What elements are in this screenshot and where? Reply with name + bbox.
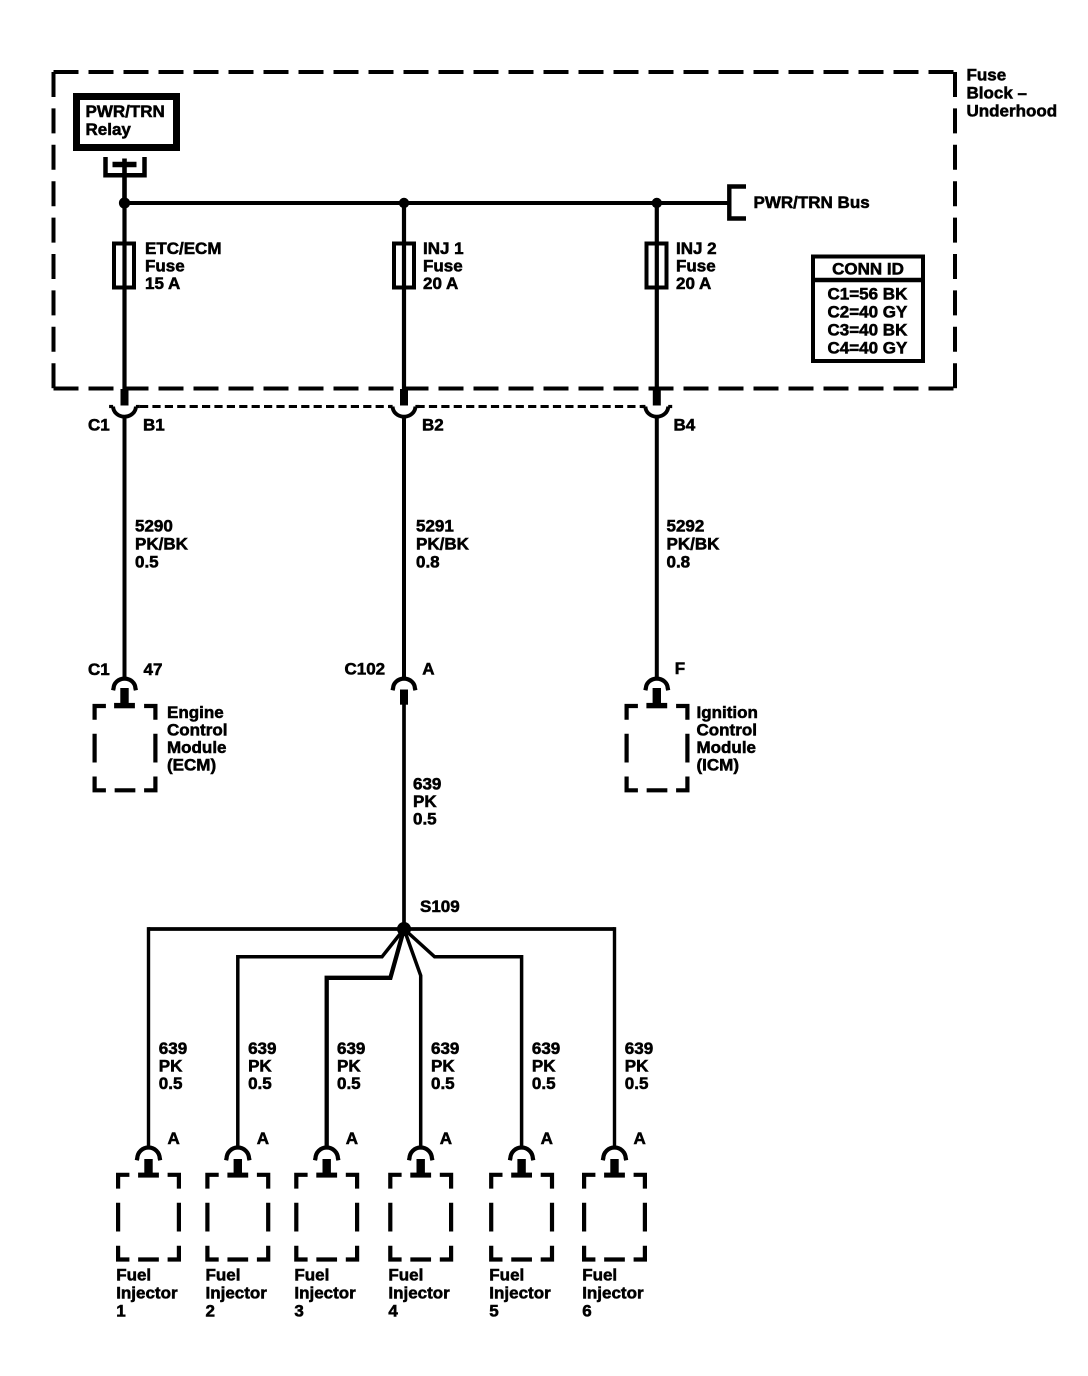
- connector C1 pin 47 at ECM: [88, 660, 162, 708]
- svg-text:639: 639: [413, 774, 441, 793]
- fuel injector 5: [489, 1175, 552, 1321]
- svg-text:Fuse: Fuse: [423, 257, 463, 276]
- svg-text:A: A: [440, 1129, 452, 1148]
- fuse INJ 2 20 A: [647, 239, 717, 293]
- svg-text:Injector: Injector: [116, 1284, 178, 1303]
- svg-text:Fuse: Fuse: [676, 257, 716, 276]
- svg-text:Fuel: Fuel: [582, 1266, 617, 1285]
- svg-text:5291: 5291: [416, 517, 454, 536]
- svg-text:639: 639: [532, 1039, 560, 1058]
- svg-text:PWR/TRN: PWR/TRN: [86, 102, 165, 121]
- svg-text:0.5: 0.5: [135, 552, 159, 571]
- svg-text:0.8: 0.8: [667, 552, 691, 571]
- fuse block label Fuse Block - Underhood: [967, 66, 1058, 121]
- svg-text:0.5: 0.5: [337, 1074, 361, 1093]
- fuel injector 2: [206, 1175, 269, 1321]
- in-line connector dashed tie line: [140, 405, 644, 408]
- svg-text:Injector: Injector: [582, 1284, 644, 1303]
- connector pin A fuel injector 4: [409, 1129, 452, 1178]
- svg-text:Relay: Relay: [86, 120, 132, 139]
- wire 5292 PK/BK 0.8: [657, 417, 720, 679]
- svg-text:S109: S109: [420, 897, 460, 916]
- fuse INJ 1 20 A: [394, 239, 464, 293]
- svg-text:639: 639: [337, 1039, 365, 1058]
- connector B2: [389, 389, 444, 435]
- fuel injector 6: [582, 1175, 645, 1321]
- svg-text:Block –: Block –: [967, 84, 1027, 103]
- svg-text:A: A: [168, 1129, 180, 1148]
- svg-text:A: A: [541, 1129, 553, 1148]
- svg-text:0.5: 0.5: [159, 1074, 183, 1093]
- wire 639 PK 0.5 C102 to splice: [404, 704, 441, 929]
- wire splice main horizontal rail: [149, 927, 615, 931]
- svg-text:1: 1: [116, 1302, 125, 1321]
- svg-text:Injector: Injector: [206, 1284, 268, 1303]
- svg-text:47: 47: [144, 660, 163, 679]
- svg-text:Injector: Injector: [294, 1284, 356, 1303]
- connector C102 pin A: [345, 660, 435, 705]
- svg-text:0.5: 0.5: [431, 1074, 455, 1093]
- wire label 639 PK 0.5 injector 5: [532, 1039, 560, 1093]
- svg-text:(ICM): (ICM): [697, 756, 739, 775]
- svg-text:Injector: Injector: [489, 1284, 551, 1303]
- wire branch to fuel injector 2: [238, 929, 404, 1147]
- svg-text:20 A: 20 A: [676, 274, 711, 293]
- svg-text:3: 3: [294, 1302, 303, 1321]
- svg-text:PK: PK: [413, 792, 437, 811]
- svg-text:ETC/ECM: ETC/ECM: [145, 239, 222, 258]
- svg-text:Control: Control: [697, 721, 757, 740]
- relay PWR/TRN: [73, 93, 180, 151]
- svg-text:Fuel: Fuel: [206, 1266, 241, 1285]
- svg-text:639: 639: [248, 1039, 276, 1058]
- wire branch to fuel injector 3: [327, 929, 404, 1147]
- svg-text:0.5: 0.5: [625, 1074, 649, 1093]
- svg-text:C102: C102: [345, 660, 386, 679]
- svg-text:PK: PK: [159, 1057, 183, 1076]
- svg-text:0.5: 0.5: [248, 1074, 272, 1093]
- wire drop to fuel injector 1: [147, 927, 150, 1147]
- svg-text:Fuel: Fuel: [294, 1266, 329, 1285]
- junction node at INJ 2 fuse drop: [652, 198, 662, 208]
- Ignition Control Module (ICM): [627, 703, 758, 790]
- svg-text:PK: PK: [532, 1057, 556, 1076]
- svg-text:CONN ID: CONN ID: [832, 260, 904, 279]
- svg-text:C1: C1: [88, 660, 110, 679]
- svg-text:A: A: [346, 1129, 358, 1148]
- wire label 639 PK 0.5 injector 4: [431, 1039, 459, 1093]
- Engine Control Module (ECM): [95, 703, 228, 790]
- svg-text:Control: Control: [167, 721, 227, 740]
- svg-text:0.5: 0.5: [413, 809, 437, 828]
- junction node at INJ 1 fuse drop: [399, 198, 409, 208]
- wire 5291 PK/BK 0.8: [404, 417, 470, 679]
- svg-text:Injector: Injector: [388, 1284, 450, 1303]
- svg-text:639: 639: [625, 1039, 653, 1058]
- splice S109: [397, 897, 460, 936]
- svg-text:A: A: [257, 1129, 269, 1148]
- connector B1 (fuse block C1 cavity B1): [88, 389, 165, 435]
- svg-text:15 A: 15 A: [145, 274, 180, 293]
- svg-text:Module: Module: [167, 738, 227, 757]
- svg-text:0.5: 0.5: [532, 1074, 556, 1093]
- connector F at ICM: [645, 659, 685, 709]
- svg-text:5292: 5292: [667, 517, 705, 536]
- svg-text:A: A: [422, 660, 434, 679]
- svg-text:PK: PK: [431, 1057, 455, 1076]
- wire label 639 PK 0.5 injector 2: [248, 1039, 276, 1093]
- wire 5290 PK/BK 0.5: [125, 417, 189, 679]
- svg-text:PK: PK: [337, 1057, 361, 1076]
- svg-text:Engine: Engine: [167, 703, 224, 722]
- PWR/TRN Bus terminal bracket: [729, 187, 869, 219]
- junction node at relay drop: [119, 197, 130, 208]
- svg-text:5: 5: [489, 1302, 498, 1321]
- wire branch to fuel injector 5: [404, 929, 522, 1147]
- svg-text:PK/BK: PK/BK: [135, 535, 189, 554]
- svg-text:C2=40 GY: C2=40 GY: [828, 303, 909, 322]
- svg-text:Fuse: Fuse: [967, 66, 1007, 85]
- svg-text:Fuel: Fuel: [489, 1266, 524, 1285]
- svg-text:PK: PK: [248, 1057, 272, 1076]
- svg-text:Fuel: Fuel: [388, 1266, 423, 1285]
- svg-text:0.8: 0.8: [416, 552, 440, 571]
- svg-text:20 A: 20 A: [423, 274, 458, 293]
- svg-text:C4=40 GY: C4=40 GY: [828, 339, 909, 358]
- svg-text:Fuse: Fuse: [145, 257, 185, 276]
- svg-text:6: 6: [582, 1302, 591, 1321]
- svg-text:C3=40 BK: C3=40 BK: [828, 321, 909, 340]
- relay output pin symbol: [106, 157, 145, 175]
- connector pin A fuel injector 6: [603, 1129, 646, 1178]
- wire label 639 PK 0.5 injector 1: [159, 1039, 187, 1093]
- fuel injector 4: [388, 1175, 451, 1321]
- svg-text:Underhood: Underhood: [967, 102, 1058, 121]
- svg-text:C1=56 BK: C1=56 BK: [828, 285, 909, 304]
- svg-text:INJ 1: INJ 1: [423, 239, 464, 258]
- svg-text:Fuel: Fuel: [116, 1266, 151, 1285]
- svg-text:B1: B1: [143, 416, 165, 435]
- svg-text:Module: Module: [697, 738, 757, 757]
- fuse block dashed enclosure: [54, 72, 956, 389]
- svg-text:4: 4: [388, 1302, 398, 1321]
- connector pin A fuel injector 3: [315, 1129, 358, 1178]
- wire drop to fuel injector 6: [613, 927, 616, 1147]
- svg-text:Ignition: Ignition: [697, 703, 758, 722]
- wire label 639 PK 0.5 injector 3: [337, 1039, 365, 1093]
- wire bus to connector B4 through INJ 2 fuse: [655, 203, 659, 390]
- svg-text:B2: B2: [422, 416, 444, 435]
- connector pin A fuel injector 2: [226, 1129, 269, 1178]
- svg-text:B4: B4: [674, 416, 696, 435]
- fuse ETC/ECM 15 A: [114, 239, 222, 293]
- wire bus to connector B2 through INJ 1 fuse: [402, 203, 406, 390]
- svg-text:C1: C1: [88, 416, 110, 435]
- wire PWR/TRN bus horizontal: [125, 201, 729, 205]
- svg-text:639: 639: [159, 1039, 187, 1058]
- connector pin A fuel injector 1: [137, 1129, 180, 1178]
- svg-text:A: A: [634, 1129, 646, 1148]
- svg-text:F: F: [675, 659, 685, 678]
- connector B4: [641, 389, 695, 435]
- fuel injector 3: [294, 1175, 357, 1321]
- svg-text:PWR/TRN Bus: PWR/TRN Bus: [754, 193, 870, 212]
- CONN ID legend table: [812, 257, 924, 362]
- svg-text:2: 2: [206, 1302, 215, 1321]
- svg-text:5290: 5290: [135, 517, 173, 536]
- svg-text:639: 639: [431, 1039, 459, 1058]
- svg-text:(ECM): (ECM): [167, 756, 216, 775]
- svg-text:PK: PK: [625, 1057, 649, 1076]
- connector pin A fuel injector 5: [510, 1129, 553, 1178]
- wire bus to connector B1 through ETC/ECM fuse: [122, 203, 126, 390]
- wire branch to fuel injector 4: [404, 929, 421, 1147]
- svg-text:INJ 2: INJ 2: [676, 239, 717, 258]
- fuel injector 1: [116, 1175, 179, 1321]
- svg-text:PK/BK: PK/BK: [416, 535, 470, 554]
- wire relay to bus: [122, 159, 127, 205]
- svg-text:PK/BK: PK/BK: [667, 535, 721, 554]
- wire label 639 PK 0.5 injector 6: [625, 1039, 653, 1093]
